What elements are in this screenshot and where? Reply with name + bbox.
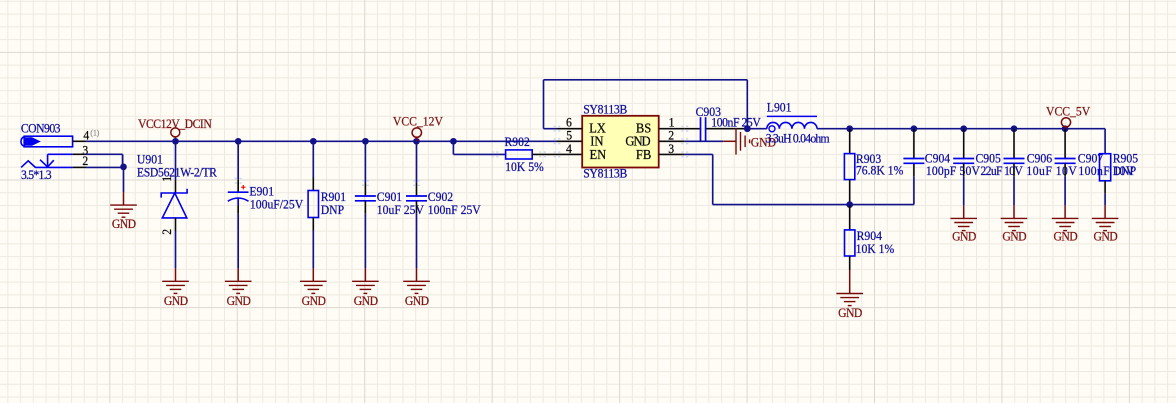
- svg-text:GND: GND: [164, 293, 188, 308]
- gnd stem C902: [416, 268, 418, 281]
- gnd stem R901: [312, 268, 314, 281]
- svg-text:GND: GND: [302, 293, 326, 308]
- wire down pin3: [122, 154, 124, 167]
- pin E901 bottom: [237, 206, 239, 214]
- wire R902 to EN pin: [532, 153, 582, 155]
- svg-text:4: 4: [83, 128, 89, 143]
- pin C901 top: [364, 183, 366, 196]
- svg-text:CON903: CON903: [21, 121, 61, 136]
- pin C904 top: [913, 129, 915, 159]
- pin 5: [557, 140, 582, 142]
- wire down EN: [452, 141, 454, 154]
- resistor R902: [506, 150, 533, 159]
- pin R901 bottom: [312, 218, 314, 231]
- svg-text:4: 4: [566, 141, 572, 156]
- wire LX up: [543, 80, 545, 129]
- gnd stem C905: [963, 205, 965, 218]
- junction rail EN branch: [450, 138, 457, 145]
- junction rail C905: [960, 125, 967, 132]
- gnd stem C906: [1013, 205, 1015, 218]
- resistor R905: [1100, 154, 1111, 181]
- wire C907 to gnd: [1064, 176, 1066, 205]
- svg-text:DNP: DNP: [321, 202, 345, 217]
- svg-text:100nF 25V: 100nF 25V: [711, 115, 761, 130]
- wire FB right: [685, 153, 713, 155]
- ground C902: [403, 281, 430, 293]
- inductor L901: [767, 122, 817, 128]
- op-amp U902 SY8113B body: [582, 116, 659, 168]
- junction rail C907: [1062, 125, 1069, 132]
- svg-text:GND: GND: [227, 293, 251, 308]
- ground R904: [836, 294, 863, 306]
- ground connector: [110, 205, 137, 217]
- diode U901: [161, 189, 187, 218]
- pin C905 top: [963, 129, 965, 159]
- wire to R901: [312, 141, 314, 177]
- pin R901 top: [312, 178, 314, 191]
- pin C902 bottom: [416, 201, 418, 214]
- junction rail U901: [172, 138, 179, 145]
- wire to E901: [237, 141, 239, 179]
- gnd stem U901: [175, 268, 177, 281]
- wire L901 to output: [817, 128, 850, 130]
- wire pin2 to junction: [86, 166, 124, 168]
- wire to U901: [175, 141, 177, 180]
- pin 1: [659, 128, 685, 130]
- capacitor E901: [228, 192, 249, 205]
- gnd stem sideways: [723, 140, 736, 142]
- wire down to R905: [1104, 129, 1106, 154]
- pin C904 bottom: [913, 163, 915, 176]
- pin 1 U901: [175, 180, 177, 193]
- ground U901: [162, 281, 189, 293]
- junction rail E901: [235, 138, 242, 145]
- svg-text:DNP: DNP: [1113, 163, 1137, 178]
- svg-text:10K 1%: 10K 1%: [856, 241, 895, 256]
- gnd stem C901: [364, 268, 366, 281]
- L901 bar: [767, 115, 817, 117]
- gnd stem R905: [1104, 205, 1106, 218]
- pin 2: [659, 140, 685, 142]
- ground sideways at pin 2: [736, 128, 750, 155]
- svg-text:GND: GND: [354, 293, 378, 308]
- ground E901: [225, 281, 252, 293]
- svg-text:3: 3: [668, 141, 674, 156]
- wire C906 to gnd: [1013, 176, 1015, 205]
- svg-text:GND: GND: [1053, 229, 1077, 244]
- svg-text:(1): (1): [90, 128, 99, 137]
- wire LX top: [544, 79, 748, 81]
- svg-text:GND: GND: [112, 216, 136, 231]
- pin 4 stub: [73, 140, 86, 142]
- ground R901: [300, 281, 327, 293]
- junction rail C906: [1011, 125, 1018, 132]
- capacitor C907: [1055, 159, 1076, 164]
- gnd stem E901: [237, 268, 239, 281]
- junction rail R901: [310, 138, 317, 145]
- wire C905 to gnd: [963, 176, 965, 205]
- svg-text:GND: GND: [405, 293, 429, 308]
- pin 6: [557, 128, 582, 130]
- pin C907 top: [1064, 129, 1066, 159]
- capacitor C902: [406, 196, 427, 201]
- wire to L901: [747, 128, 767, 130]
- pin 3: [659, 153, 685, 155]
- wire to R902: [453, 153, 505, 155]
- wire pin2 to gnd: [685, 140, 723, 142]
- svg-text:GND: GND: [952, 229, 976, 244]
- pin R904 bottom: [849, 256, 851, 270]
- svg-text:100pF 50V: 100pF 50V: [926, 163, 980, 178]
- ground C901: [352, 281, 379, 293]
- wire main 12V rail: [86, 140, 557, 142]
- junction LX node: [744, 125, 751, 132]
- svg-text:2: 2: [159, 229, 174, 235]
- svg-text:FB: FB: [636, 146, 652, 162]
- pin C905 bottom: [963, 163, 965, 176]
- wire R905 to gnd: [1104, 194, 1106, 206]
- junction output R903: [846, 125, 853, 132]
- capacitor C905: [953, 159, 974, 164]
- pin E901 top: [237, 179, 239, 192]
- pin 2 stub: [73, 166, 86, 168]
- junction FB node: [846, 201, 853, 208]
- svg-text:EN: EN: [590, 146, 607, 162]
- resistor R901: [308, 191, 318, 218]
- wire BS to C903: [685, 128, 700, 130]
- wire FB to C904: [713, 204, 914, 206]
- capacitor C903: [701, 117, 706, 140]
- pin R904 top: [849, 205, 851, 230]
- svg-text:3.5*1.3: 3.5*1.3: [21, 168, 52, 183]
- svg-text:GND: GND: [1093, 229, 1117, 244]
- wire LX stub: [544, 128, 558, 130]
- pin R903 top: [849, 129, 851, 154]
- wire FB down: [712, 154, 714, 204]
- ground C907: [1052, 218, 1079, 230]
- capacitor C906: [1004, 159, 1025, 164]
- power port VCC_12V: [412, 128, 421, 137]
- gnd stem C907: [1064, 205, 1066, 218]
- resistor R904: [845, 230, 855, 256]
- ground R905: [1092, 218, 1119, 230]
- svg-text:VCC12V_DCIN: VCC12V_DCIN: [138, 116, 212, 131]
- junction rail C904: [911, 125, 918, 132]
- gnd stem R904: [849, 270, 851, 294]
- junction connector gnd: [120, 164, 127, 171]
- wire C903 to LX node: [706, 128, 747, 130]
- ground C906: [1001, 218, 1028, 230]
- ground C905: [950, 218, 977, 230]
- pin C906 bottom: [1013, 163, 1015, 176]
- wire E901 to gnd: [237, 214, 239, 269]
- svg-text:SY8113B: SY8113B: [583, 102, 627, 117]
- svg-text:3.3uH 0.04ohm: 3.3uH 0.04ohm: [766, 131, 830, 146]
- pin 3 stub: [73, 153, 86, 155]
- connector CON903: [21, 136, 73, 167]
- pin C901 bottom: [364, 201, 366, 214]
- pin C907 bottom: [1064, 163, 1066, 176]
- svg-text:VCC_12V: VCC_12V: [393, 114, 443, 129]
- capacitor C904: [903, 159, 924, 164]
- capacitor C901: [355, 196, 376, 201]
- junction rail C901: [362, 138, 369, 145]
- pin 2 U901: [175, 218, 177, 231]
- svg-text:ESD5621W-2/TR: ESD5621W-2/TR: [137, 165, 218, 180]
- wire C902 to gnd: [416, 214, 418, 269]
- power port VCC12V_DCIN: [171, 128, 180, 137]
- svg-text:10uF 10V: 10uF 10V: [1026, 163, 1076, 178]
- svg-text:2: 2: [82, 154, 88, 169]
- gnd stem: [123, 192, 125, 205]
- svg-text:100nF 25V: 100nF 25V: [428, 202, 481, 217]
- pin C906 top: [1013, 129, 1015, 159]
- svg-text:100uF/25V: 100uF/25V: [250, 197, 303, 212]
- pin R905 bottom: [1104, 181, 1106, 194]
- wire LX down: [746, 80, 748, 129]
- svg-text:SY8113B: SY8113B: [583, 166, 627, 181]
- svg-text:22uF 10V: 22uF 10V: [981, 163, 1023, 178]
- power port VCC_5V: [1061, 118, 1070, 127]
- svg-text:10K 5%: 10K 5%: [505, 160, 544, 175]
- svg-text:L901: L901: [767, 100, 792, 115]
- pin C902 top: [416, 183, 418, 196]
- wire C901 to gnd: [364, 214, 366, 269]
- wire pin3 to junction: [86, 153, 123, 155]
- svg-text:GND: GND: [838, 305, 862, 320]
- svg-text:VCC_5V: VCC_5V: [1046, 104, 1090, 119]
- wire to C901: [364, 141, 366, 183]
- wire up to C904: [913, 176, 915, 204]
- wire output rail: [850, 128, 1105, 130]
- pin R903 bottom: [849, 180, 851, 205]
- wire R901 to gnd: [312, 231, 314, 269]
- resistor R903: [844, 154, 854, 180]
- wire to C902: [416, 141, 418, 183]
- svg-text:GND: GND: [1002, 229, 1026, 244]
- junction rail C902: [413, 138, 420, 145]
- wire down to gnd: [123, 167, 125, 192]
- svg-text:R902: R902: [505, 135, 530, 150]
- wire U901 to gnd: [175, 231, 177, 268]
- svg-text:76.8K 1%: 76.8K 1%: [856, 163, 903, 178]
